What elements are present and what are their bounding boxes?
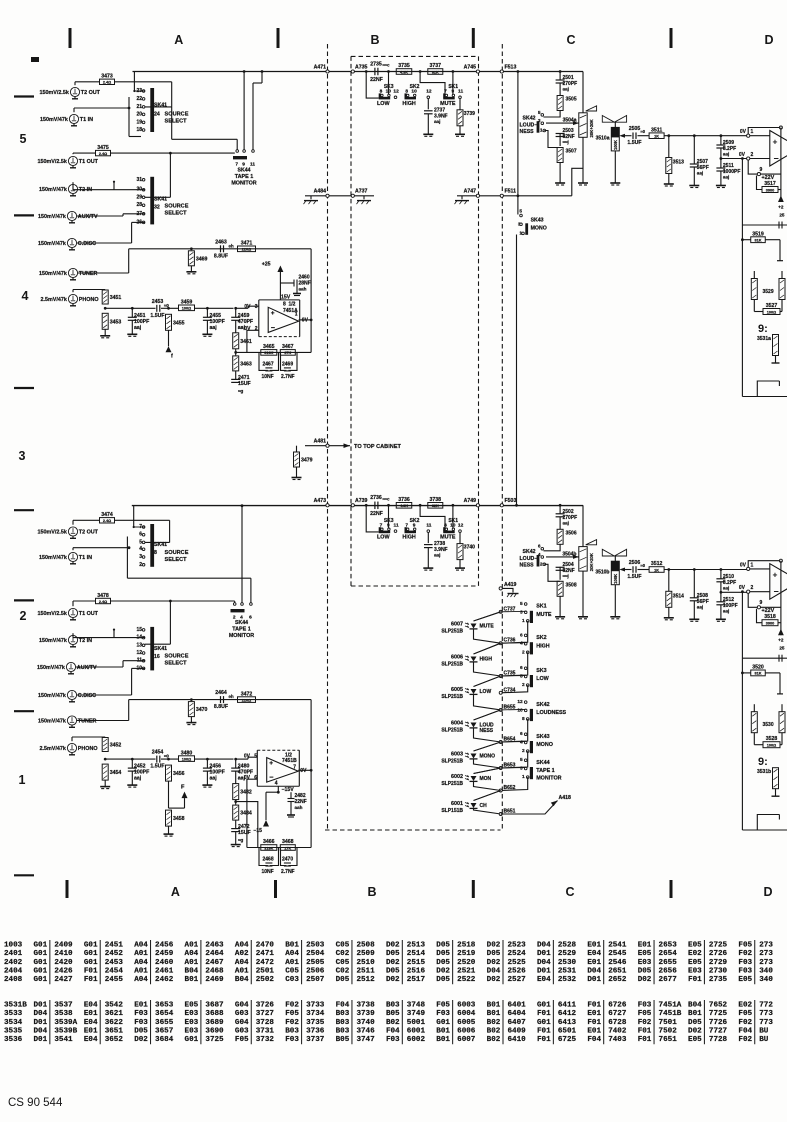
svg-text:3454: 3454 [110, 770, 122, 776]
wire T2 IN [72, 633, 74, 637]
svg-text:aaj: aaj [723, 152, 729, 157]
bottom rail wire [742, 829, 787, 831]
svg-text:12: 12 [458, 522, 464, 528]
svg-text:2505: 2505 [629, 126, 641, 132]
svg-text:F03: F03 [638, 1002, 652, 1010]
wire C.DISC [77, 694, 132, 696]
ground below pot [582, 137, 584, 183]
supply -15V [277, 786, 279, 792]
svg-text:3735: 3735 [398, 63, 410, 69]
svg-text:D04: D04 [34, 1010, 48, 1018]
svg-text:D01: D01 [537, 950, 551, 958]
svg-text:2528: 2528 [558, 942, 577, 950]
svg-text:2532: 2532 [558, 976, 577, 984]
wire B653 to 6002 [474, 768, 501, 774]
pin 9 node [748, 593, 757, 607]
svg-text:2.7NF: 2.7NF [281, 374, 295, 380]
svg-text:3651: 3651 [105, 1027, 124, 1035]
wire bus to SK44 pin 11 [261, 70, 264, 73]
svg-text:4.3K: 4.3K [400, 504, 408, 508]
svg-text:11: 11 [394, 522, 399, 528]
svg-text:BU: BU [759, 1036, 769, 1044]
capacitor 2737 3.9NF [427, 99, 429, 110]
input source C.DISC (upper) [67, 238, 76, 247]
svg-text:22NF: 22NF [370, 77, 383, 83]
switch SK1 MUTE [443, 531, 455, 534]
svg-text:3687: 3687 [205, 1002, 224, 1010]
feedback tap junction [235, 800, 237, 805]
svg-text:+: + [773, 570, 778, 580]
wire op-amp -input to feedback [247, 779, 257, 847]
capacitor 2504 82NF [544, 564, 560, 581]
svg-text:aaj: aaj [210, 325, 218, 331]
node B654 [499, 741, 502, 744]
svg-text:2467: 2467 [263, 361, 274, 367]
svg-text:D05: D05 [386, 950, 400, 958]
svg-text:F01: F01 [537, 1036, 551, 1044]
svg-text:A: A [174, 33, 183, 47]
svg-text:2506: 2506 [306, 967, 325, 975]
svg-text:F01: F01 [537, 1010, 551, 1018]
svg-text:3900: 3900 [766, 622, 774, 626]
svg-text:F03: F03 [738, 967, 752, 975]
svg-text:3511: 3511 [651, 127, 662, 133]
svg-text:2524: 2524 [508, 950, 527, 958]
svg-text:3688: 3688 [205, 1010, 224, 1018]
node C737 [499, 610, 502, 613]
svg-text:B04: B04 [235, 976, 249, 984]
capacitor 2451 100PF [131, 308, 133, 317]
capacitor 2459 470PF [234, 307, 237, 310]
svg-text:3465: 3465 [263, 344, 275, 350]
svg-text:6006: 6006 [457, 1027, 476, 1035]
svg-text:150mV/2.5k: 150mV/2.5k [38, 530, 67, 536]
svg-text:5: 5 [519, 208, 522, 214]
svg-text:3533: 3533 [4, 1010, 23, 1018]
svg-text:−15V: −15V [282, 787, 295, 793]
svg-text:2506: 2506 [629, 560, 641, 566]
svg-text:6007: 6007 [451, 622, 463, 628]
svg-text:6007: 6007 [457, 1036, 476, 1044]
svg-text:G01: G01 [34, 976, 48, 984]
resistor 3508 [557, 581, 563, 596]
svg-text:−: − [774, 154, 779, 164]
svg-text:3: 3 [520, 766, 523, 772]
wire to SK42 pin top [544, 111, 561, 118]
svg-text:273: 273 [759, 950, 773, 958]
ground below 3470 [190, 717, 192, 723]
wire TUNER to preamp rail [78, 272, 129, 274]
svg-text:LOW: LOW [377, 101, 390, 107]
svg-text:8.8UF: 8.8UF [214, 704, 228, 710]
svg-text:6003: 6003 [457, 1002, 476, 1010]
svg-text:SLP151B: SLP151B [441, 808, 463, 814]
resistor 3505 56K [559, 83, 561, 96]
svg-text:B03: B03 [336, 1027, 350, 1035]
long supply vertical [741, 159, 743, 397]
svg-text:F04: F04 [386, 1027, 400, 1035]
svg-text:91K: 91K [755, 672, 762, 676]
svg-text:25: 25 [779, 646, 785, 651]
wire 6001 to next node [474, 808, 501, 814]
svg-text:3738: 3738 [430, 497, 442, 503]
svg-text:≈≈c: ≈≈c [383, 63, 391, 68]
svg-text:B04: B04 [688, 1002, 702, 1010]
svg-text:E02: E02 [688, 950, 702, 958]
svg-text:SELECT: SELECT [165, 119, 188, 125]
svg-text:3655: 3655 [155, 1019, 174, 1027]
left margin dash marks [31, 57, 39, 62]
svg-text:2507: 2507 [306, 976, 325, 984]
svg-text:D01: D01 [537, 967, 551, 975]
svg-text:F03: F03 [386, 1036, 400, 1044]
svg-text:SK43: SK43 [536, 734, 550, 740]
bottom margin grid tick 3 [472, 880, 475, 898]
svg-text:2420: 2420 [54, 959, 73, 967]
svg-text:3: 3 [520, 609, 523, 615]
resistor 3517 3900 [757, 176, 763, 190]
svg-text:150mV/2.5k: 150mV/2.5k [38, 159, 67, 165]
op-amp IC outline upper (section D) [770, 131, 787, 167]
svg-text:E05: E05 [738, 976, 752, 984]
svg-text:T1 OUT: T1 OUT [79, 611, 99, 617]
capacitor 2501 270PF [559, 72, 561, 81]
svg-text:7451A: 7451A [659, 1002, 682, 1010]
svg-text:F04: F04 [587, 1036, 601, 1044]
svg-text:A471: A471 [314, 64, 327, 70]
wire PHONO to preamp [71, 737, 73, 741]
svg-text:D02: D02 [436, 967, 450, 975]
test point F [168, 781, 170, 808]
svg-text:2529: 2529 [558, 950, 577, 958]
wire F511 riser to loudness network [572, 168, 583, 196]
svg-text:3474: 3474 [101, 512, 113, 518]
svg-text:150mV/47k: 150mV/47k [38, 693, 66, 699]
inner dashed box (tone board) [351, 55, 479, 57]
svg-text:2: 2 [751, 152, 754, 158]
svg-text:≈≈j: ≈≈j [563, 573, 569, 578]
wire T2 IN [72, 182, 74, 190]
svg-text:100Ω: 100Ω [182, 307, 191, 311]
svg-text:2520: 2520 [457, 959, 476, 967]
svg-text:TUNER: TUNER [79, 271, 98, 277]
switch SK3 LOW [379, 531, 391, 534]
svg-text:3739: 3739 [356, 1010, 375, 1018]
svg-text:E03: E03 [688, 967, 702, 975]
svg-text:2409: 2409 [54, 942, 73, 950]
svg-text:0V: 0V [739, 585, 746, 591]
svg-text:82K: 82K [432, 504, 439, 508]
top margin grid tick 1 [69, 28, 72, 48]
svg-text:6501: 6501 [558, 1027, 577, 1035]
svg-text:2: 2 [139, 562, 142, 568]
svg-text:F503: F503 [505, 498, 517, 504]
svg-text:A04: A04 [134, 942, 148, 950]
svg-text:T1 IN: T1 IN [79, 555, 92, 561]
svg-text:3: 3 [19, 449, 26, 463]
svg-text:A739: A739 [355, 498, 368, 504]
test point f [168, 330, 170, 346]
svg-text:2515: 2515 [407, 959, 426, 967]
svg-text:G01: G01 [34, 959, 48, 967]
svg-text:3528: 3528 [766, 736, 778, 742]
ground below 2737 [427, 114, 429, 135]
svg-text:2456: 2456 [155, 942, 174, 950]
svg-text:D01: D01 [587, 976, 601, 984]
node A735 [351, 70, 354, 73]
svg-text:316K: 316K [264, 846, 273, 850]
input source T2 OUT (lower) [68, 527, 77, 536]
svg-text:C734: C734 [504, 687, 516, 693]
svg-text:8: 8 [522, 716, 525, 722]
svg-text:MONO: MONO [480, 754, 496, 760]
svg-text:7451B: 7451B [282, 758, 297, 764]
capacitor 2470 2.7NF [281, 848, 287, 866]
svg-text:≈g: ≈g [238, 838, 244, 843]
svg-text:LOUDNESS: LOUDNESS [536, 710, 566, 716]
svg-text:3468: 3468 [282, 839, 294, 845]
svg-text:PHONO: PHONO [78, 746, 98, 752]
capacitor 2468 10NF [259, 848, 268, 866]
svg-text:0V: 0V [740, 129, 747, 135]
svg-text:6413: 6413 [558, 1019, 577, 1027]
ground below 3454 [104, 780, 106, 787]
svg-text:D05: D05 [436, 950, 450, 958]
svg-text:3740: 3740 [464, 545, 475, 551]
svg-text:A: A [171, 885, 180, 899]
svg-text:aaj: aaj [563, 520, 569, 525]
svg-text:2654: 2654 [659, 950, 678, 958]
svg-text:E05: E05 [688, 942, 702, 950]
svg-text:3726: 3726 [256, 1002, 275, 1010]
svg-text:6003: 6003 [451, 752, 463, 758]
svg-text:3469: 3469 [196, 256, 208, 262]
wiper arrow into pot [546, 122, 579, 124]
capacitor 2480 470PF [234, 758, 237, 761]
node B653 [499, 767, 502, 770]
svg-text:B01: B01 [185, 976, 199, 984]
svg-text:6006: 6006 [451, 655, 463, 661]
supply +25 arrow [279, 272, 281, 300]
svg-text:2511: 2511 [356, 967, 375, 975]
ground below 3739 [459, 126, 461, 135]
svg-text:D05: D05 [487, 950, 501, 958]
svg-text:F02: F02 [285, 1002, 299, 1010]
svg-text:2: 2 [540, 561, 543, 567]
svg-text:SLP251B: SLP251B [441, 759, 463, 765]
supply rail arrow [780, 128, 782, 203]
wire tone line to loudness pot [502, 71, 583, 73]
svg-text:3: 3 [255, 304, 258, 310]
resistor 3514 100K [667, 568, 670, 571]
node A471 [326, 70, 329, 73]
svg-text:A01: A01 [185, 942, 199, 950]
resistor 3518 3900 [757, 609, 763, 623]
inner corner bracket [757, 381, 779, 397]
resistor 3472 220R [238, 697, 256, 703]
svg-text:3453: 3453 [110, 319, 122, 325]
resistor 3512 1K [649, 567, 664, 573]
svg-text:3508: 3508 [566, 582, 577, 588]
svg-text:3472: 3472 [241, 691, 253, 697]
resistor 3519 91K [741, 238, 744, 241]
svg-text:F03: F03 [134, 1010, 148, 1018]
node A745 [476, 70, 479, 73]
wiper arrow into 3510b [619, 568, 625, 572]
svg-text:B: B [367, 885, 376, 899]
svg-text:1.5UF: 1.5UF [150, 313, 164, 319]
svg-text:22NF: 22NF [370, 511, 383, 517]
svg-text:HIGH: HIGH [536, 643, 550, 649]
svg-text:2408: 2408 [4, 976, 23, 984]
svg-text:11: 11 [458, 89, 463, 95]
svg-text:28: 28 [136, 202, 142, 208]
svg-text:SK3: SK3 [536, 668, 547, 674]
svg-text:F03: F03 [285, 1036, 299, 1044]
capacitor 2511 1000PF [720, 148, 722, 159]
svg-text:16: 16 [154, 654, 160, 660]
svg-text:B: B [370, 33, 379, 47]
svg-text:4: 4 [520, 641, 523, 647]
svg-text:F02: F02 [638, 1019, 652, 1027]
svg-text:MONITOR: MONITOR [536, 775, 561, 781]
resistor 3451 [102, 290, 108, 304]
svg-text:3689: 3689 [205, 1019, 224, 1027]
svg-text:A04: A04 [235, 942, 249, 950]
svg-text:A473: A473 [314, 498, 327, 504]
svg-text:3531b: 3531b [757, 769, 771, 775]
svg-text:F03: F03 [738, 959, 752, 967]
svg-text:10NF: 10NF [262, 374, 274, 380]
svg-text:aaj: aaj [723, 175, 729, 180]
svg-text:+2: +2 [778, 638, 784, 643]
svg-text:3467: 3467 [282, 344, 294, 350]
svg-text:2.4Ω: 2.4Ω [103, 81, 111, 85]
svg-text:773: 773 [759, 1010, 773, 1018]
top margin grid tick 4 [670, 28, 673, 48]
svg-text:E01: E01 [638, 942, 652, 950]
svg-text:SK2: SK2 [410, 84, 420, 90]
resistor pair 3530 [751, 712, 757, 733]
svg-text:CH: CH [480, 803, 488, 809]
svg-text:100K: 100K [613, 574, 618, 584]
svg-text:2517: 2517 [407, 976, 426, 984]
capacitor 2503 82NF [544, 131, 560, 148]
svg-text:3512: 3512 [651, 561, 663, 567]
inner corner bracket [757, 815, 779, 831]
pin 9 node [748, 160, 757, 174]
wire bus to SK44 pin 4 [241, 504, 244, 507]
svg-text:1: 1 [295, 312, 298, 318]
capacitor 2735 22NF [374, 68, 376, 76]
svg-text:SK1: SK1 [536, 604, 547, 610]
wire 6007 to next node [474, 629, 501, 643]
capacitor 2736 22NF [374, 502, 376, 510]
svg-text:150mV/47k: 150mV/47k [38, 214, 66, 220]
svg-text:3737: 3737 [306, 1036, 325, 1044]
svg-text:2453: 2453 [152, 299, 164, 305]
svg-text:1: 1 [522, 774, 525, 780]
svg-text:D02: D02 [487, 976, 501, 984]
svg-text:aah: aah [295, 805, 303, 810]
svg-text:2.4Ω: 2.4Ω [103, 519, 111, 523]
svg-text:D05: D05 [436, 942, 450, 950]
svg-text:2512: 2512 [356, 976, 375, 984]
svg-text:C.DISC: C.DISC [78, 693, 96, 699]
svg-text:2: 2 [751, 585, 754, 591]
svg-text:3736: 3736 [306, 1027, 325, 1035]
svg-text:2677: 2677 [659, 976, 678, 984]
svg-text:3531B: 3531B [4, 1002, 27, 1010]
svg-text:2523: 2523 [508, 942, 527, 950]
svg-text:3740: 3740 [356, 1019, 375, 1027]
svg-text:SELECT: SELECT [165, 661, 188, 667]
wire to SK42 pin top [544, 544, 561, 551]
wire SK2 lower contact down [501, 652, 528, 676]
svg-text:B01: B01 [487, 1010, 501, 1018]
svg-text:20K+20K: 20K+20K [589, 118, 594, 137]
wire B653 to SK44 [501, 767, 526, 770]
svg-text:220Ω: 220Ω [242, 248, 251, 252]
svg-text:G01: G01 [185, 1036, 199, 1044]
wire C736 to SK2 [501, 642, 526, 645]
svg-text:LOW: LOW [377, 535, 390, 541]
svg-text:150mV/2.5k: 150mV/2.5k [40, 90, 69, 96]
resistor 3735 4.3K [396, 69, 412, 75]
resistor 3479 [297, 445, 306, 447]
svg-text:220Ω: 220Ω [242, 698, 251, 702]
wire to SK1 pin [452, 505, 454, 528]
svg-text:4.3K: 4.3K [400, 70, 408, 74]
svg-text:F02: F02 [738, 950, 752, 958]
wires resistor pair [753, 271, 755, 279]
svg-text:G04: G04 [235, 1019, 249, 1027]
capacitor 2505 1.5UF [625, 135, 632, 137]
svg-text:aaj: aaj [723, 608, 729, 613]
svg-text:2518: 2518 [457, 942, 476, 950]
wire AUX/TV [77, 215, 123, 217]
svg-text:2508: 2508 [356, 942, 375, 950]
svg-text:D05: D05 [436, 976, 450, 984]
svg-text:MONITOR: MONITOR [231, 181, 256, 187]
svg-text:2459: 2459 [155, 950, 174, 958]
svg-text:9: 9 [760, 167, 763, 173]
svg-text:2652: 2652 [608, 976, 627, 984]
svg-text:31: 31 [136, 177, 142, 183]
svg-text:3: 3 [139, 554, 142, 560]
capacitor 2453 1.5UF [156, 305, 158, 312]
svg-text:150mV/47k: 150mV/47k [39, 555, 67, 561]
wires resistor pair [753, 704, 755, 712]
svg-text:B01: B01 [487, 1002, 501, 1010]
wire to SK1 pin [452, 72, 454, 95]
svg-text:3538: 3538 [54, 1010, 73, 1018]
capacitor 2455 100PF [206, 307, 209, 310]
capacitor 2452 100PF [131, 759, 133, 768]
wire rail to output riser [310, 700, 312, 771]
svg-text:2735: 2735 [370, 61, 382, 67]
svg-text:SLP251B: SLP251B [441, 728, 463, 734]
svg-text:2452: 2452 [105, 950, 124, 958]
svg-text:F05: F05 [738, 942, 752, 950]
svg-text:3736: 3736 [398, 497, 410, 503]
svg-text:273: 273 [759, 942, 773, 950]
svg-text:5: 5 [20, 132, 27, 146]
svg-text:6: 6 [520, 665, 523, 671]
svg-text:E03: E03 [185, 1019, 199, 1027]
svg-text:T2 OUT: T2 OUT [79, 530, 99, 536]
wire SK43 lower contact down [501, 751, 528, 768]
